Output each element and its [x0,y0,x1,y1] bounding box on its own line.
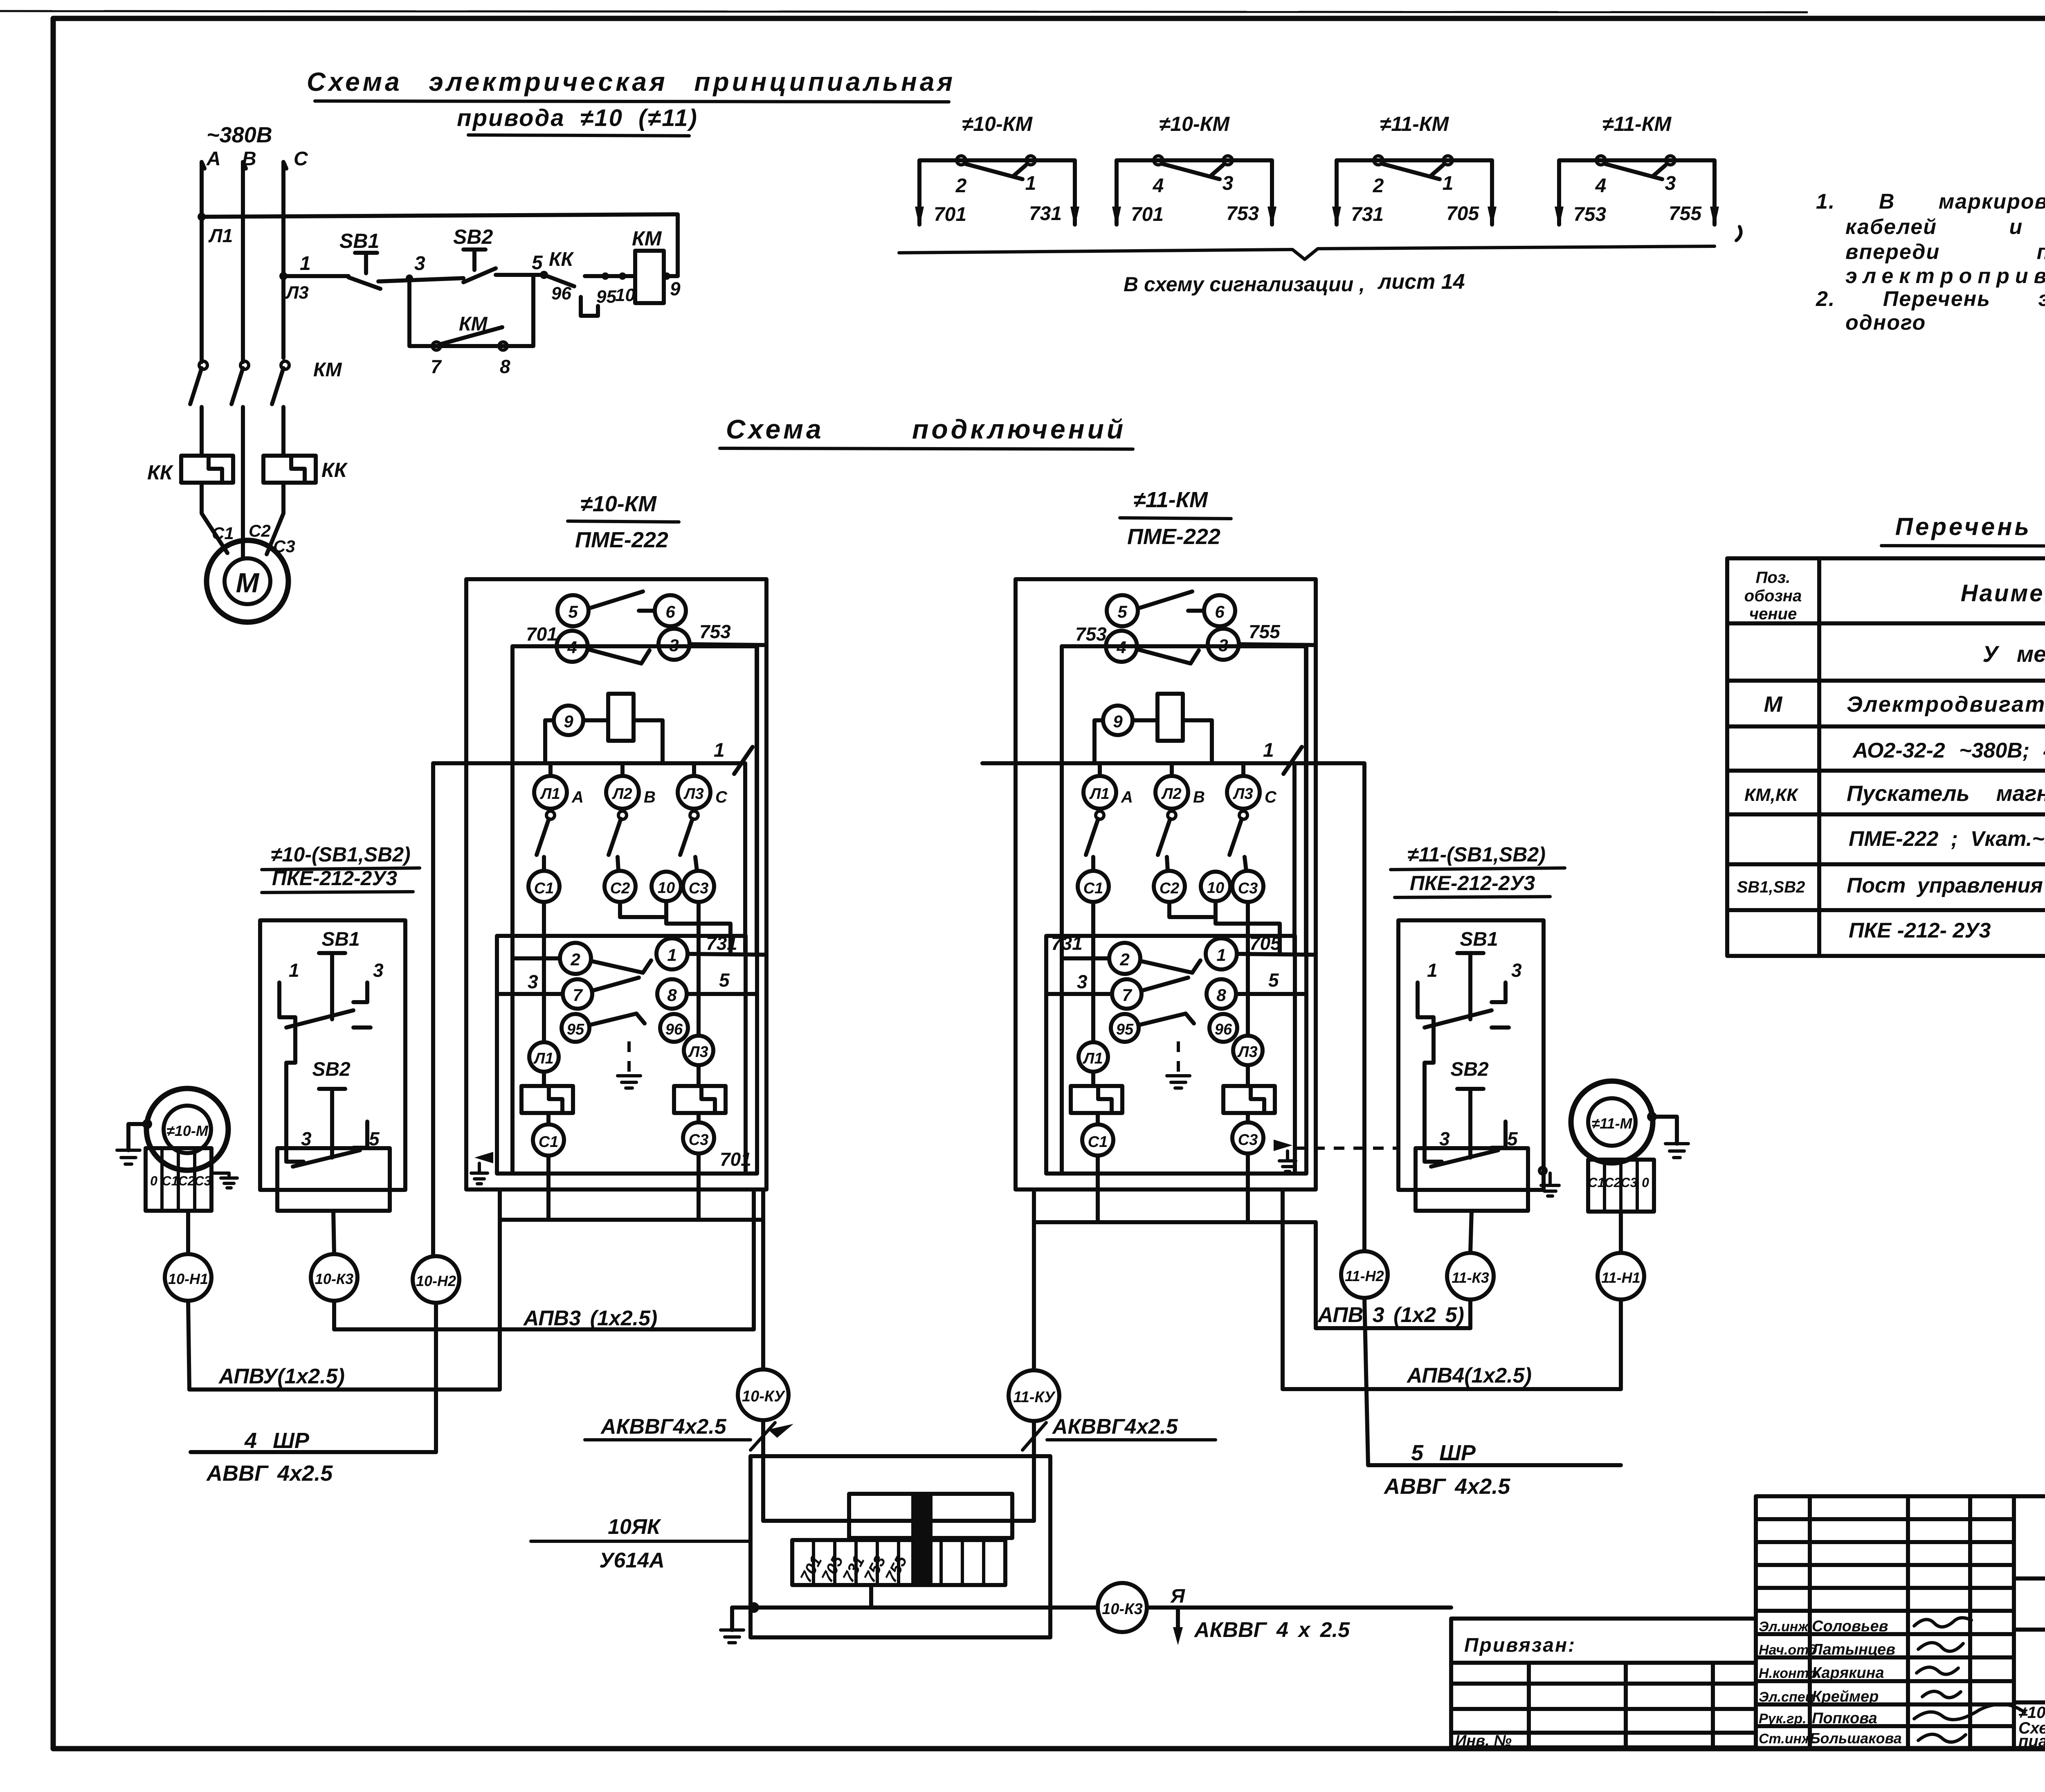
svg-text:С3: С3 [1621,1175,1638,1190]
svg-text:3: 3 [1665,173,1676,194]
svg-text:10-К3: 10-К3 [1102,1601,1142,1618]
pushbutton station box 10-(SB1,SB2) [260,920,405,1211]
svg-text:10: 10 [658,879,675,897]
wire phase B [243,162,246,362]
ground at SB box 11 bottom right [1539,1167,1546,1174]
svg-text:Нач.отд: Нач.отд [1759,1642,1817,1658]
wire SB11 base to 11-K3 [1470,1211,1472,1253]
svg-text:А: А [571,788,584,806]
wire 755 drop box2 right [1304,645,1308,954]
svg-text:5: 5 [369,1128,380,1149]
svg-text:SB2: SB2 [453,225,493,248]
main contacts [546,811,555,819]
svg-text:0: 0 [150,1174,157,1188]
svg-text:705: 705 [1249,933,1281,954]
svg-text:Рук.гр.: Рук.гр. [1759,1711,1807,1727]
wire SB10 base to 10-K3 [333,1211,334,1254]
svg-text:1. В маркировке аппаратов, п: 1. В маркировке аппаратов, проводов, [1816,190,2045,214]
wire to title block [1147,1605,1451,1610]
svg-text:Схема электрическая принципи: Схема электрическая принципиальная [307,67,955,97]
test ground mark [1177,1041,1180,1076]
svg-text:1: 1 [1263,740,1274,761]
svg-text:Эл.спец: Эл.спец [1759,1689,1814,1705]
wire SB1 to node 3 [378,278,463,281]
ground flag box1 bottom left [474,1152,493,1163]
svg-text:96: 96 [665,1021,683,1038]
svg-text:А: А [1121,788,1133,806]
svg-text:11-Н1: 11-Н1 [1601,1269,1640,1286]
pushbutton station box 11-(SB1,SB2) [1398,920,1544,1211]
svg-text:≠11-КМ: ≠11-КМ [1133,488,1208,512]
svg-text:10-КУ: 10-КУ [742,1388,786,1405]
cable APV3 left [332,1301,336,1329]
svg-text:В схему сигнализации ,: В схему сигнализации , [1124,273,1365,296]
svg-text:Креймер: Креймер [1812,1688,1879,1705]
cable marker 10-K3 [311,1254,357,1301]
contact group 11-КМ 731/705 [1332,112,1497,227]
svg-text:АВВГ 4х2.5: АВВГ 4х2.5 [206,1461,333,1486]
svg-text:SB1,SB2: SB1,SB2 [1737,878,1805,896]
cable marker 10-K3 bottom [1098,1583,1147,1632]
terminal pair 2-1 [1109,943,1140,974]
svg-text:впереди проставляется номер: впереди проставляется номер [1845,240,2045,264]
svg-text:5: 5 [1117,602,1127,621]
svg-text:одного электропривода: одного электропривода [1845,311,2045,335]
terminal pair 5-6 [557,595,589,626]
motor plug 10-M [146,1088,228,1170]
wire control top [202,214,678,276]
svg-text:731: 731 [1351,204,1384,225]
svg-text:АКВВГ 4 х 2.5: АКВВГ 4 х 2.5 [1193,1618,1350,1642]
terminal pair 7-8 [563,979,592,1009]
signature names [1759,1618,1902,1747]
svg-text:~380В: ~380В [207,123,272,147]
wire 1 from box2 right to 11-N2 [982,763,1364,1251]
svg-text:3: 3 [528,971,538,992]
cable marker 10-N1 [165,1254,211,1301]
heater terminals [529,1042,559,1072]
cable APV3 right [1468,1300,1472,1328]
svg-text:1: 1 [1025,173,1036,194]
svg-text:Л1: Л1 [1089,785,1109,803]
svg-text:АПВ4(1х2.5): АПВ4(1х2.5) [1406,1364,1532,1387]
bottom terminals C1 C3 [533,1124,564,1156]
svg-text:Л3: Л3 [1232,785,1253,803]
svg-text:АО2-32-2 ~380В; 4кВт; 8А: АО2-32-2 ~380В; 4кВт; 8А [1852,739,2045,762]
terminal pair 95-96 [1111,1014,1139,1042]
contact group 11-КМ 753/755 [1555,112,1719,227]
svg-text:С3: С3 [689,1131,709,1149]
wires to motor [202,483,227,553]
svg-text:В: В [1193,788,1205,806]
svg-text:SB1: SB1 [321,929,360,950]
svg-text:Пускатель магнитный: Пускатель магнитный [1847,781,2045,806]
svg-text:2. Перечень элементов приве: 2. Перечень элементов приведён для [1816,287,2045,311]
contact KM aux branch [409,276,533,346]
output terminals C1 C2 10 C3 [1078,871,1109,902]
svg-text:1: 1 [1443,173,1454,194]
small ground right of connector box 10 [211,1171,229,1175]
svg-text:753: 753 [1226,203,1259,225]
svg-text:753: 753 [699,621,731,642]
svg-text:Схема подключений: Схема подключений [726,414,1126,444]
svg-text:9: 9 [564,712,573,731]
node L1 [198,213,206,221]
svg-text:ПКЕ-212-2У3: ПКЕ-212-2У3 [1410,872,1535,895]
brace to signalling diagram [899,246,1715,259]
svg-text:7: 7 [431,356,442,377]
svg-text:4: 4 [567,638,577,657]
terminal pair 4-3 [557,631,588,662]
wire phase C [283,162,286,358]
svg-text:10-К3: 10-К3 [315,1270,353,1287]
svg-text:3: 3 [373,960,384,981]
svg-text:Перечень элементов: Перечень элементов [1895,513,2045,540]
svg-text:753: 753 [1075,623,1107,645]
title block signatures grid [1756,1496,2045,1747]
cable 5ShR [1364,1298,1368,1465]
svg-text:В: В [644,788,656,806]
svg-text:Ст.инж.: Ст.инж. [1759,1731,1816,1747]
terminal pair 7-8 [1112,979,1142,1009]
privyazan table [1451,1619,1756,1747]
svg-text:С1: С1 [1588,1175,1605,1190]
svg-text:У механизма: У механизма [1982,641,2045,667]
svg-text:≠11-КМ: ≠11-КМ [1380,112,1449,135]
svg-text:10-Н2: 10-Н2 [416,1273,456,1289]
svg-text:4: 4 [1153,175,1164,197]
svg-text:3: 3 [1511,960,1522,981]
cable marker 11-KU [1009,1370,1059,1421]
cable APVU left [188,1301,189,1390]
svg-text:11-Н2: 11-Н2 [1345,1268,1384,1284]
svg-text:Латынцев: Латынцев [1811,1641,1895,1658]
svg-text:Карякина: Карякина [1812,1664,1884,1682]
motor M [207,540,288,622]
bottom bus [754,1605,1050,1610]
phase terminals L1 L2 L3 [534,776,567,809]
svg-text:5: 5 [532,252,543,274]
magnetic starter box 10-KM outer [433,579,766,1189]
svg-text:С2: С2 [178,1174,195,1188]
ground left of motor 10-M [128,1124,148,1150]
svg-text:привода ≠10 (≠11): привода ≠10 (≠11) [457,105,698,131]
svg-text:М: М [236,567,260,598]
link wire [1425,1017,1434,1129]
svg-text:У614А: У614А [599,1549,665,1572]
svg-text:755: 755 [1669,203,1702,225]
svg-text:≠11-(SB1,SB2): ≠11-(SB1,SB2) [1407,843,1546,866]
connector box under 11-M [1588,1160,1654,1212]
svg-text:5: 5 [1268,969,1279,991]
svg-text:С1: С1 [1088,1133,1108,1151]
svg-text:С3: С3 [1238,880,1258,897]
contact group 10-КМ 701/731 [915,112,1079,227]
svg-text:ПМЕ-222 ; Vкат.~380В; 1т = 8: ПМЕ-222 ; Vкат.~380В; 1т = 8А [1849,827,2045,851]
svg-text:755: 755 [1249,621,1281,642]
svg-text:АВВГ 4х2.5: АВВГ 4х2.5 [1383,1474,1510,1499]
svg-text:731: 731 [1051,933,1083,954]
svg-text:701: 701 [934,204,966,225]
border frame [0,11,1808,12]
contact group 10-КМ 701/753 [1112,112,1276,227]
svg-text:1: 1 [667,945,676,965]
heater terminals [1079,1042,1108,1072]
ground right of motor 11-M [1651,1117,1677,1144]
svg-text:АПВ3 (1х2.5): АПВ3 (1х2.5) [523,1306,657,1330]
svg-text:2: 2 [570,950,580,969]
wire connector box 11 to 11-N1 [1619,1212,1623,1253]
svg-text:5: 5 [1507,1128,1518,1149]
svg-text:11-К3: 11-К3 [1452,1269,1489,1286]
terminal pair 5-6 [1107,595,1138,626]
svg-text:С: С [1265,788,1277,806]
svg-text:С1: С1 [534,880,554,897]
svg-text:705: 705 [1446,203,1479,225]
wire 1 rail [982,761,1293,765]
svg-text:Большакова: Большакова [1810,1730,1902,1747]
svg-text:≠11-КМ: ≠11-КМ [1602,112,1672,135]
svg-text:электропривода.: электропривода. [1845,264,2045,288]
svg-text:3: 3 [669,636,679,655]
svg-text:95: 95 [1116,1021,1134,1038]
collector under box1 [500,1218,763,1222]
svg-text:4: 4 [1116,638,1126,657]
cable 4ShR [434,1303,438,1452]
svg-text:0: 0 [1642,1175,1649,1190]
svg-text:8: 8 [667,985,677,1005]
ground of terminal box [732,1608,751,1630]
node 5 [540,271,548,279]
svg-text:Л3: Л3 [688,1043,708,1061]
terminal pair 2-1 [560,943,591,974]
svg-text:3: 3 [1439,1128,1450,1149]
step wires [542,902,546,1042]
svg-text:6: 6 [1215,602,1225,621]
nodes before coil [602,272,609,280]
svg-text:9: 9 [1113,712,1123,731]
wire connector box 10 to 10-N1 [186,1211,190,1254]
svg-text:7: 7 [1122,985,1132,1005]
svg-text:С3: С3 [195,1174,211,1188]
bottom terminals C1 C3 [1082,1124,1113,1156]
svg-text:2: 2 [1119,950,1129,969]
phase terminals L1 L2 L3 [1083,776,1116,809]
svg-text:С1: С1 [212,524,234,543]
svg-text:КМ: КМ [313,359,342,381]
svg-text:3: 3 [301,1128,312,1149]
svg-text:1: 1 [1427,960,1438,981]
main title block [2014,1578,2045,1747]
parts list table grid [1727,558,2045,956]
svg-text:С2: С2 [1160,880,1180,897]
svg-text:пиальная. Схема подключений: пиальная. Схема подключений [2018,1732,2045,1750]
svg-text:11-КУ: 11-КУ [1013,1389,1056,1406]
svg-text:7: 7 [573,985,583,1005]
svg-text:731: 731 [1029,203,1062,225]
svg-text:753: 753 [1573,204,1606,225]
svg-text:АПВ 3 (1х2 5): АПВ 3 (1х2 5) [1317,1303,1464,1327]
wire phase A [202,162,204,362]
coil [1157,694,1183,741]
output terminals C1 C2 10 C3 [528,871,560,902]
magnetic starter box 11-KM outer [982,579,1316,1189]
svg-text:С: С [715,788,728,806]
svg-text:Соловьев: Соловьев [1812,1618,1888,1635]
ground flag box2 bottom right [1274,1140,1292,1151]
svg-text:10-Н1: 10-Н1 [168,1270,208,1287]
svg-text:С1: С1 [539,1133,559,1151]
svg-text:8: 8 [1216,985,1226,1005]
cable marker 10-KU [738,1369,789,1420]
svg-text:95: 95 [567,1021,584,1038]
svg-text:Л2: Л2 [1161,785,1181,803]
terminal pair 4-3 [1106,631,1137,662]
svg-text:1: 1 [300,253,311,274]
svg-text:≠10-КМ: ≠10-КМ [580,492,657,516]
terminal box 10YAK U614A [751,1456,1050,1637]
svg-text:3: 3 [1223,173,1234,194]
squiggle signatures [1914,1618,2025,1742]
svg-text:96: 96 [551,283,571,304]
svg-text:КК: КК [321,459,348,481]
wire 1 from box1 down to 10-N2 [431,763,435,1256]
svg-text:Наименование: Наименование [1961,580,2045,607]
svg-text:1: 1 [1216,945,1226,965]
svg-text:SB1: SB1 [1460,929,1498,950]
svg-text:Я: Я [1170,1585,1185,1607]
svg-text:3: 3 [1218,636,1228,655]
svg-text:АКВВГ4х2.5: АКВВГ4х2.5 [1052,1415,1178,1439]
svg-text:КК: КК [549,249,575,270]
svg-text:731: 731 [706,933,737,954]
step wires [1091,902,1095,1042]
svg-text:Л2: Л2 [611,785,632,803]
svg-text:4: 4 [1595,175,1607,197]
ink smudge bar [911,1492,933,1586]
collector under box2 [1034,1220,1316,1224]
svg-text:≠10-КМ: ≠10-КМ [1159,112,1230,135]
svg-text:Поз.: Поз. [1756,569,1791,587]
svg-text:КМ: КМ [632,227,662,250]
svg-text:Л1: Л1 [208,225,233,246]
svg-text:3: 3 [414,253,425,274]
svg-text:Инв. №: Инв. № [1455,1732,1512,1749]
heater elements [521,1086,573,1113]
main contacts [1096,811,1104,819]
svg-text:С: С [294,148,308,170]
svg-text:2: 2 [955,175,967,197]
svg-text:5: 5 [568,602,578,621]
svg-text:С2: С2 [610,880,630,897]
cable marker 10-N2 [413,1256,459,1303]
svg-text:обозна: обозна [1744,587,1802,605]
svg-text:М: М [1764,692,1783,717]
wire 1 rail [433,761,744,765]
coil [608,694,634,741]
svg-text:Электродвигатель: Электродвигатель [1847,692,2045,717]
wire SB2 to node 5 [496,273,544,277]
svg-text:С3: С3 [689,880,709,897]
svg-text:10: 10 [615,285,635,305]
dashed wire box2 to SB2 box [1294,1147,1398,1150]
notes text block [1816,190,2045,335]
svg-text:ПМЕ-222: ПМЕ-222 [1127,524,1220,549]
svg-text:кабелей и в кабельном журн: кабелей и в кабельном журнале, [1845,215,2045,239]
svg-text:5: 5 [719,969,730,991]
svg-text:8: 8 [500,356,510,377]
terminal pair 95-96 [562,1014,589,1042]
svg-text:≠11-М: ≠11-М [1591,1115,1632,1132]
node 1 [279,272,288,280]
svg-text:701: 701 [720,1149,751,1170]
svg-text:701: 701 [526,623,557,645]
svg-text:С2: С2 [249,521,271,540]
svg-text:10: 10 [1207,879,1224,897]
svg-text:1: 1 [289,960,299,981]
svg-text:Л3: Л3 [285,283,309,303]
svg-text:9: 9 [670,278,681,299]
svg-text:Л1: Л1 [539,785,560,803]
svg-text:Попкова: Попкова [1812,1710,1877,1727]
svg-text:АПВУ(1х2.5): АПВУ(1х2.5) [218,1365,345,1388]
svg-text:≠10-М: ≠10-М [166,1122,209,1139]
svg-text:Привязан:: Привязан: [1464,1635,1576,1656]
svg-text:701: 701 [1131,204,1164,225]
svg-text:КМ,КК: КМ,КК [1744,785,1799,805]
node 3 [406,274,413,282]
svg-text:ПМЕ-222: ПМЕ-222 [575,528,668,552]
svg-text:Л3: Л3 [1237,1043,1257,1061]
svg-text:ПКЕ -212- 2У3: ПКЕ -212- 2У3 [1849,919,1991,942]
svg-text:чение: чение [1749,605,1797,623]
svg-text:SB1: SB1 [339,229,379,252]
link wire [286,1017,295,1129]
svg-text:Л1: Л1 [533,1050,553,1067]
svg-text:5 ШР: 5 ШР [1411,1441,1476,1465]
svg-text:Л3: Л3 [683,785,703,803]
wire node1 to SB1 [283,274,348,278]
svg-text:1: 1 [714,740,725,761]
svg-text:АКВВГ4х2.5: АКВВГ4х2.5 [600,1415,727,1439]
svg-text:С1: С1 [162,1174,179,1188]
wire 753 drop box1 right [755,645,759,954]
svg-text:10ЯК: 10ЯК [608,1515,661,1539]
svg-text:С3: С3 [1238,1131,1258,1149]
svg-text:≠10-(SB1,SB2): ≠10-(SB1,SB2) [271,843,410,866]
svg-text:96: 96 [1215,1021,1232,1038]
svg-text:95: 95 [596,287,616,307]
svg-text:А: А [206,148,221,170]
svg-text:Л1: Л1 [1082,1050,1103,1067]
svg-text:4 ШР: 4 ШР [244,1428,310,1453]
svg-text:SB2: SB2 [312,1059,351,1080]
terminal strip [792,1540,1005,1585]
cable marker 11-N2 [1341,1251,1388,1298]
svg-text:6: 6 [665,602,675,621]
svg-text:С2: С2 [1605,1175,1621,1190]
svg-text:SB2: SB2 [1450,1059,1489,1080]
svg-text:Эл.инж.: Эл.инж. [1759,1619,1812,1635]
motor plug 11-M [1571,1081,1653,1163]
svg-text:КК: КК [147,461,174,484]
svg-text:≠10-КМ: ≠10-КМ [962,112,1033,135]
connector box under 10-M [146,1148,211,1211]
test ground mark [627,1041,631,1076]
svg-text:лист 14: лист 14 [1377,270,1465,294]
cable marker 11-K3 [1447,1253,1494,1300]
heater elements [1071,1086,1122,1113]
